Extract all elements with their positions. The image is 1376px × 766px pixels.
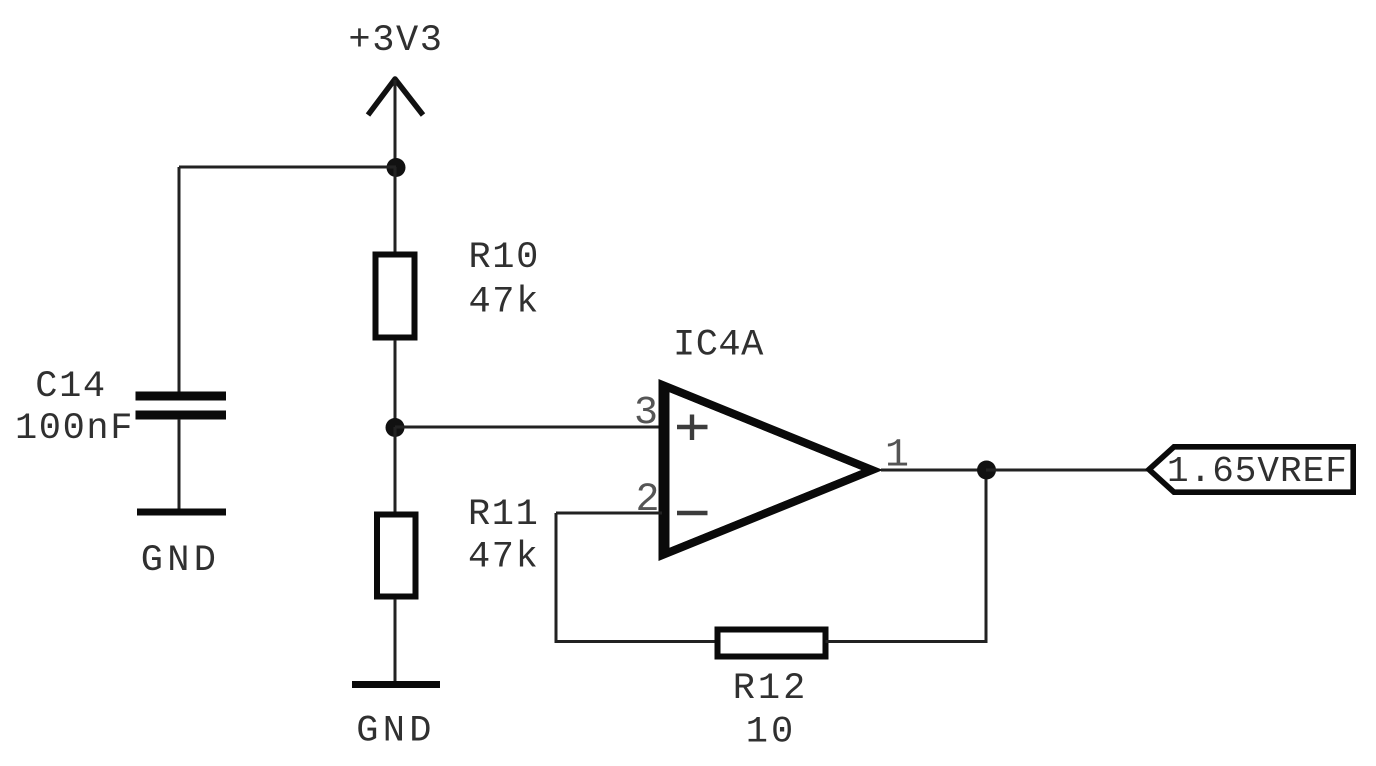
svg-text:47k: 47k	[469, 282, 540, 324]
wire: power stem	[394, 80, 397, 167]
net label 1.65VREF flag	[1149, 447, 1353, 492]
node: mid junction	[386, 418, 405, 437]
wire: R11 to ground	[394, 599, 397, 682]
wire: output vertical	[985, 470, 988, 643]
wire: mid junction to R11	[394, 427, 397, 513]
svg-text:47k: 47k	[468, 537, 539, 579]
svg-text:1: 1	[885, 434, 909, 479]
op-amp plus input mark	[677, 415, 708, 441]
wire: feedback left vertical	[555, 513, 558, 642]
node: output junction	[977, 461, 996, 480]
op-amp minus input mark	[677, 511, 708, 515]
op-amp IC4A body	[659, 379, 884, 561]
svg-text:C14: C14	[35, 366, 106, 408]
wire: junction to net flag	[986, 469, 1147, 472]
svg-text:2: 2	[635, 478, 659, 523]
wire: C14 bottom lead	[178, 419, 181, 510]
wire: R10 to mid junction	[394, 340, 397, 428]
svg-text:R11: R11	[468, 494, 539, 536]
svg-text:10: 10	[746, 712, 796, 754]
svg-text:100nF: 100nF	[15, 408, 134, 450]
op-amp IC4A inner white	[670, 392, 862, 547]
power +3V3 arrow symbol	[368, 79, 423, 115]
svg-text:GND: GND	[141, 540, 221, 582]
resistor R12	[718, 630, 826, 657]
svg-text:IC4A: IC4A	[673, 325, 764, 367]
wire: R12 to output vertical	[826, 640, 987, 643]
wire: top junction to R10	[394, 167, 397, 254]
svg-text:R12: R12	[733, 668, 809, 710]
svg-text:R10: R10	[469, 237, 540, 279]
svg-text:GND: GND	[356, 711, 436, 753]
svg-text:1.65VREF: 1.65VREF	[1167, 451, 1348, 492]
wire: top junction to C14 branch	[179, 166, 396, 169]
svg-text:3: 3	[634, 391, 658, 436]
wire: pin 2 lead	[556, 512, 662, 515]
wire: op-amp output to junction	[881, 469, 986, 472]
wire: mid junction to op-amp pin 3	[395, 426, 662, 429]
svg-text:+3V3: +3V3	[348, 20, 443, 62]
ground GND left	[137, 509, 226, 516]
resistor R11	[377, 515, 416, 597]
node: top junction	[387, 158, 406, 177]
wire: feedback bottom to R12	[555, 640, 715, 643]
capacitor C14 plate top	[136, 392, 227, 401]
ground GND bottom	[352, 681, 440, 688]
capacitor C14 plate bottom	[136, 411, 227, 420]
resistor R10	[376, 255, 415, 338]
wire: C14 top lead	[178, 167, 181, 392]
